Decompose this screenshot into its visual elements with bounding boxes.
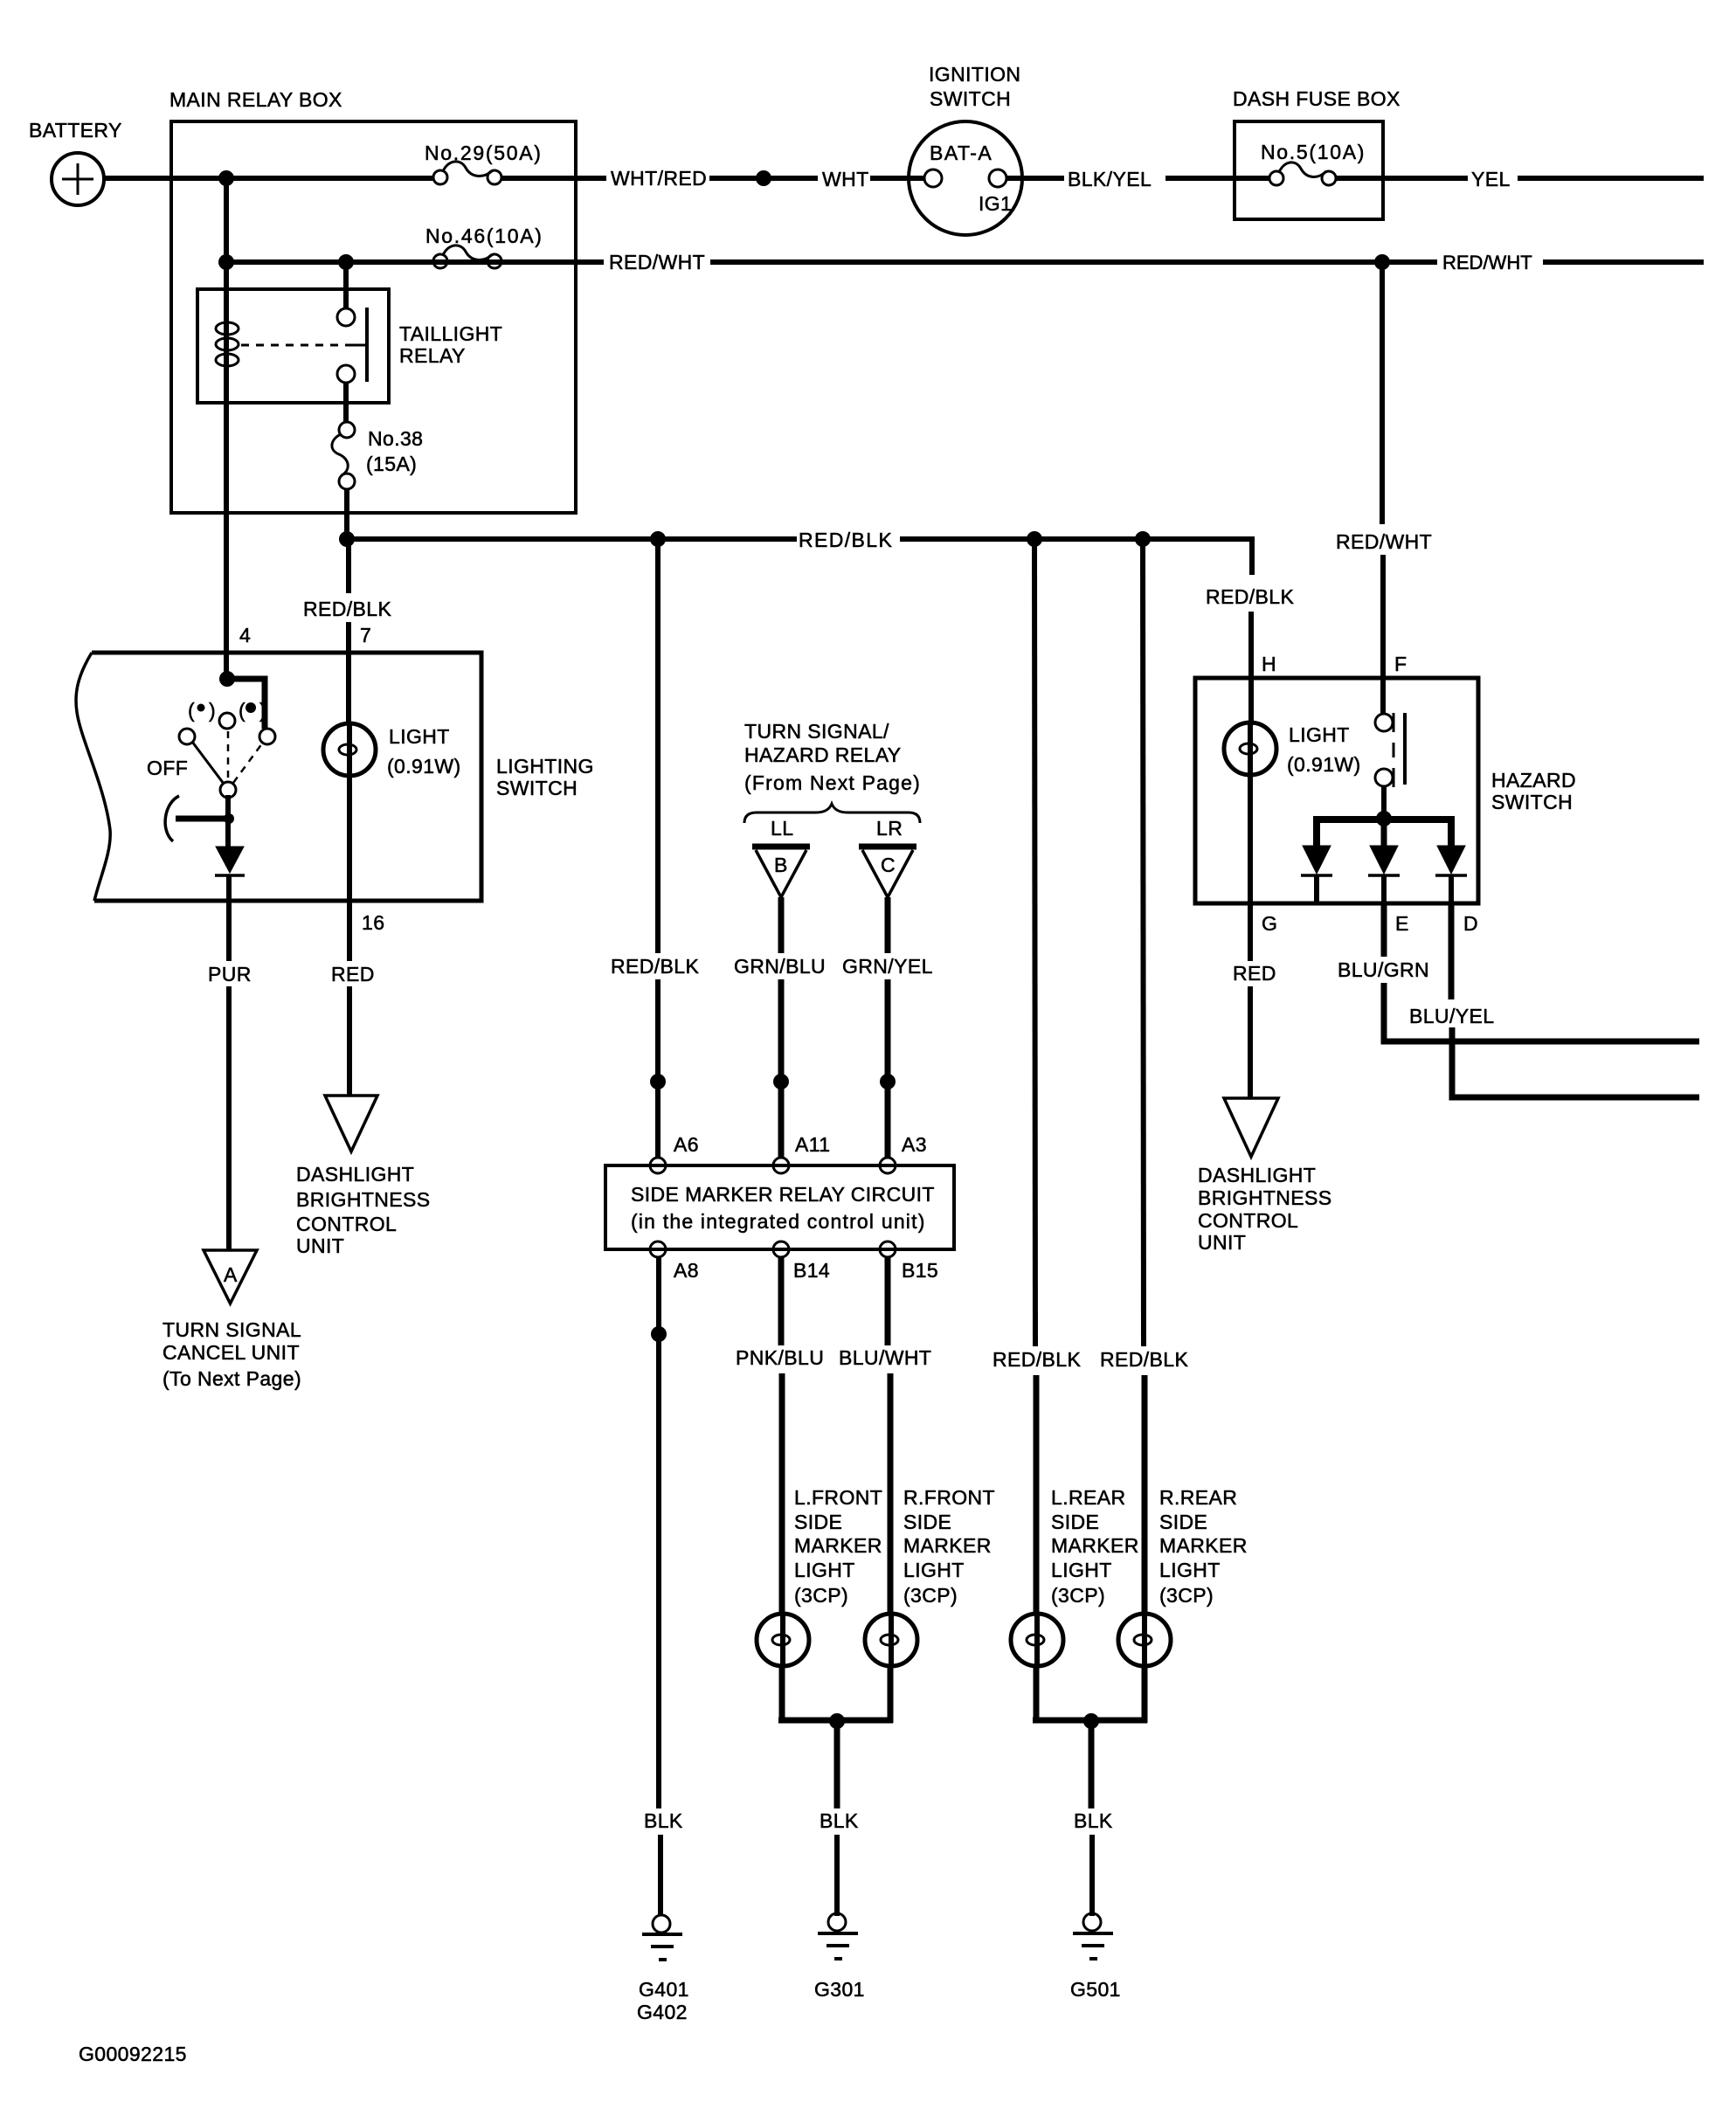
svg-text:GRN/YEL: GRN/YEL [842,955,933,978]
wires front markers to G301 [778,1664,893,1916]
taillight relay coil [216,322,239,366]
junction dot rear markers [1083,1713,1099,1729]
switch dashed to right contact [233,743,262,783]
svg-text:C: C [881,854,896,876]
wiper bar thick [176,813,234,824]
svg-text:SWITCH: SWITCH [496,777,578,799]
svg-text:(From Next Page): (From Next Page) [744,771,921,794]
svg-text:LIGHT: LIGHT [903,1559,965,1581]
svg-text:IGNITION: IGNITION [929,63,1020,86]
svg-text:MARKER: MARKER [1051,1534,1139,1557]
wire hazard G to dashlight unit [1248,986,1253,1098]
junction dot A6 wire [650,1074,666,1089]
svg-text:16: 16 [362,911,384,934]
terminal B15 [880,1241,938,1282]
label L.rear side marker light [1051,1486,1139,1607]
svg-text:LIGHT: LIGHT [1159,1559,1221,1581]
terminal A11 [773,1133,830,1173]
svg-text:L.FRONT: L.FRONT [794,1486,882,1509]
svg-text:LIGHT: LIGHT [794,1559,855,1581]
curved hook [165,796,179,841]
svg-text:No.5(10A): No.5(10A) [1261,141,1366,163]
svg-text:B15: B15 [902,1259,938,1282]
ignition switch [909,63,1022,235]
wire hazard bulb to box bottom [1248,775,1253,961]
svg-text:DASH FUSE BOX: DASH FUSE BOX [1233,87,1401,110]
junction W2/battery branch [218,254,234,270]
svg-text:WHT/RED: WHT/RED [611,167,707,190]
terminal A6 [650,1133,699,1173]
connector C triangle [859,847,916,897]
junction on W1 [756,170,771,186]
svg-text:A: A [224,1263,238,1286]
svg-text:(0.91W): (0.91W) [387,755,461,778]
svg-text:(3CP): (3CP) [903,1584,958,1607]
brace [744,804,920,823]
svg-text:(: ( [239,699,246,722]
svg-text:BAT-A: BAT-A [930,142,992,164]
svg-text:A11: A11 [795,1133,830,1156]
svg-text:H: H [1262,653,1276,675]
svg-text:(15A): (15A) [366,453,417,475]
dashlight unit triangle left [325,1096,377,1151]
svg-text:LL: LL [771,817,793,840]
svg-text:): ) [259,699,266,722]
svg-text:BRIGHTNESS: BRIGHTNESS [1198,1186,1332,1209]
svg-text:PNK/BLU: PNK/BLU [736,1346,824,1369]
svg-text:RED/WHT: RED/WHT [1442,252,1532,273]
svg-text:RED/WHT: RED/WHT [1336,530,1432,553]
svg-text:A6: A6 [674,1133,699,1156]
svg-text:CANCEL UNIT: CANCEL UNIT [163,1341,300,1364]
wire RED drop [347,986,352,1096]
wire L.rear branch [1034,536,1036,1615]
svg-text:(3CP): (3CP) [794,1584,848,1607]
switch dashed to top contact [227,731,230,780]
junction W2/hazard F branch [1374,254,1390,270]
svg-text:SWITCH: SWITCH [1491,791,1573,813]
svg-text:MARKER: MARKER [1159,1534,1248,1557]
R.rear side marker light bulb [1118,1614,1171,1666]
junction bus/A6 branch [650,531,666,547]
main relay box [169,88,576,513]
svg-text:L.REAR: L.REAR [1051,1486,1125,1509]
fuse No.29(50A) [425,142,543,184]
svg-text:RED/BLK: RED/BLK [799,529,893,551]
svg-text:7: 7 [360,624,371,647]
lighting switch L-branch wire [227,679,265,729]
connector A triangle [204,1250,257,1304]
svg-text:RED/BLK: RED/BLK [1100,1348,1188,1371]
svg-text:(To Next Page): (To Next Page) [163,1367,301,1390]
svg-text:B: B [774,854,788,876]
svg-text:PUR: PUR [208,963,252,985]
svg-text:WHT: WHT [822,168,869,190]
wire hazard E (BLU/GRN) [1384,903,1699,1041]
svg-text:LIGHT: LIGHT [1289,723,1350,746]
hazard switch bulb [1224,723,1361,778]
hazard switch contact [1375,713,1405,787]
svg-text:RED: RED [1233,962,1276,985]
wire B to A11 [778,897,785,1158]
svg-text:No.29(50A): No.29(50A) [425,142,543,164]
svg-text:BLU/GRN: BLU/GRN [1338,958,1429,981]
svg-text:MARKER: MARKER [903,1534,992,1557]
hazard switch box [1195,678,1576,903]
position mark right (.) [239,699,266,722]
svg-text:UNIT: UNIT [1198,1231,1246,1254]
position mark left (.) [188,699,216,722]
svg-text:G501: G501 [1070,1978,1121,2001]
svg-text:LR: LR [876,817,903,840]
svg-text:4: 4 [239,624,251,647]
wire pin7 drop [346,536,351,593]
svg-text:(0.91W): (0.91W) [1287,753,1361,776]
svg-text:SIDE: SIDE [903,1511,951,1533]
svg-text:A3: A3 [902,1133,927,1156]
svg-text:IG1: IG1 [979,192,1012,215]
svg-text:(: ( [188,699,195,722]
svg-text:G301: G301 [814,1978,865,2001]
svg-text:LIGHT: LIGHT [389,725,450,748]
label dashlight brightness control unit (left) [296,1163,431,1257]
svg-text:G401: G401 [639,1978,689,2001]
svg-text:DASHLIGHT: DASHLIGHT [1198,1164,1316,1186]
svg-text:RED: RED [331,963,375,985]
svg-text:E: E [1395,912,1409,935]
L.front side marker light bulb [757,1614,809,1666]
svg-text:TURN SIGNAL/: TURN SIGNAL/ [744,720,889,743]
wire hazard F drop (RED/WHT) [1382,262,1383,715]
lighting switch bulb [323,723,461,778]
svg-text:RED/WHT: RED/WHT [609,251,705,273]
connector B triangle [752,847,810,897]
terminal A8 [650,1241,699,1282]
svg-text:RED/BLK: RED/BLK [992,1348,1081,1371]
svg-text:SIDE: SIDE [794,1511,842,1533]
svg-text:DASHLIGHT: DASHLIGHT [296,1163,414,1186]
svg-text:No.38: No.38 [368,427,423,450]
svg-text:A8: A8 [674,1259,699,1282]
wire contact to diode bus [1381,786,1387,821]
fuse No.46(10A) [425,225,543,268]
svg-text:SIDE: SIDE [1051,1511,1099,1533]
wire bulb to box bottom [347,776,352,961]
diode (lighting switch) [215,847,245,875]
wire W1 battery feed segments [103,176,1704,181]
ground G401/G402 [637,1915,689,2023]
svg-text:R.REAR: R.REAR [1159,1486,1237,1509]
wire battery vertical to lighting switch [224,178,229,681]
svg-text:B14: B14 [793,1259,830,1282]
label R.front side marker light [903,1486,995,1607]
wire B15 to R.front marker [888,1257,890,1615]
diode 1 [1301,846,1332,903]
svg-text:BLU/YEL: BLU/YEL [1409,1005,1494,1027]
L.rear side marker light bulb [1011,1614,1063,1666]
fuse No.38(15A) [332,422,423,489]
svg-text:G00092215: G00092215 [79,2043,187,2065]
svg-text:(3CP): (3CP) [1159,1584,1214,1607]
junction dot front markers [829,1713,845,1729]
junction bus/fuse38 [339,531,355,547]
junction W1/battery vertical [218,170,234,186]
label turn signal/hazard relay [744,720,921,794]
diode bus [1317,819,1451,847]
svg-text:BATTERY: BATTERY [29,119,122,142]
wire C to A3 [885,897,891,1158]
svg-text:RED/BLK: RED/BLK [611,955,699,978]
fuse No.5(10A) [1261,141,1366,185]
svg-text:RELAY: RELAY [399,344,466,367]
lighting switch junction dot [219,671,235,687]
wire fuse38 to RED/BLK bus [344,489,349,542]
dashlight unit triangle right [1224,1098,1278,1157]
wire R.rear branch [1143,536,1145,1615]
junction bus/R.rear branch [1135,531,1151,547]
svg-text:SIDE: SIDE [1159,1511,1207,1533]
lighting switch box (torn left edge) [76,653,594,901]
label turn signal cancel unit [163,1318,301,1390]
svg-text:UNIT: UNIT [296,1234,344,1257]
label R.rear side marker light [1159,1486,1248,1607]
svg-text:HAZARD: HAZARD [1491,769,1576,792]
svg-text:G402: G402 [637,2001,688,2023]
wire hazard D (BLU/YEL) [1451,903,1699,1097]
svg-text:F: F [1394,653,1407,675]
svg-text:BLK: BLK [820,1809,859,1832]
switch wiper solid [192,742,224,784]
svg-text:BLU/WHT: BLU/WHT [839,1346,931,1369]
terminal B14 [773,1241,830,1282]
svg-text:R.FRONT: R.FRONT [903,1486,995,1509]
svg-text:BLK: BLK [644,1809,683,1832]
junction W2/fuse46 branch [338,254,354,270]
label L.front side marker light [794,1486,882,1607]
junction dot A3 wire [880,1074,896,1089]
junction dot on A8 wire [651,1326,667,1342]
svg-text:YEL: YEL [1471,168,1511,190]
diode 2 [1368,819,1400,903]
wire W2 RED/WHT row [226,259,1704,265]
R.front side marker light bulb [865,1614,917,1666]
svg-text:): ) [209,699,216,722]
label dashlight brightness control unit (right) [1198,1164,1332,1254]
wire A8 to ground [659,1257,661,1916]
svg-text:CONTROL: CONTROL [296,1213,397,1235]
svg-text:D: D [1463,912,1478,935]
svg-text:HAZARD RELAY: HAZARD RELAY [744,743,901,766]
wire hazard H drop [1248,612,1254,725]
svg-text:CONTROL: CONTROL [1198,1209,1298,1232]
battery B+ [29,119,122,205]
RED/BLK bus [347,536,1252,575]
taillight relay link dashed [241,344,353,347]
svg-text:BLK/YEL: BLK/YEL [1068,168,1152,190]
wire B14 to L.front marker [781,1257,782,1615]
switch contact circles [179,713,275,798]
terminal A3 [880,1133,927,1173]
wire pivot to diode [225,795,231,847]
svg-text:SWITCH: SWITCH [930,87,1011,110]
wires rear markers to G501 [1033,1664,1147,1916]
wire diode to box bottom [226,875,232,961]
svg-text:TAILLIGHT: TAILLIGHT [399,322,502,345]
svg-text:OFF: OFF [147,757,188,779]
svg-text:BRIGHTNESS: BRIGHTNESS [296,1188,431,1211]
side marker relay circuit box [605,1165,954,1249]
ground G501 [1070,1913,1121,2001]
svg-text:LIGHT: LIGHT [1051,1559,1112,1581]
ground G301 [814,1913,865,2001]
dash fuse box [1233,87,1401,219]
svg-text:No.46(10A): No.46(10A) [425,225,543,247]
taillight relay contact [337,262,367,422]
wire PUR drop [226,986,232,1250]
taillight relay [197,289,502,403]
diode 3 [1435,846,1467,903]
svg-text:GRN/BLU: GRN/BLU [734,955,826,978]
svg-text:TURN SIGNAL: TURN SIGNAL [163,1318,301,1341]
svg-text:MAIN RELAY BOX: MAIN RELAY BOX [169,88,342,111]
svg-text:(3CP): (3CP) [1051,1584,1105,1607]
wire A6 branch [655,536,661,1158]
svg-text:SIDE MARKER RELAY CIRCUIT: SIDE MARKER RELAY CIRCUIT [631,1183,935,1206]
junction dot diode bus [1376,811,1392,826]
junction dot A11 wire [773,1074,789,1089]
svg-text:(in the integrated control uni: (in the integrated control unit) [631,1210,926,1233]
junction bus/L.rear branch [1027,531,1042,547]
svg-text:MARKER: MARKER [794,1534,882,1557]
svg-text:BLK: BLK [1074,1809,1113,1832]
svg-text:RED/BLK: RED/BLK [303,598,391,620]
svg-text:LIGHTING: LIGHTING [496,755,594,778]
svg-text:G: G [1262,912,1277,935]
svg-text:RED/BLK: RED/BLK [1206,585,1294,608]
